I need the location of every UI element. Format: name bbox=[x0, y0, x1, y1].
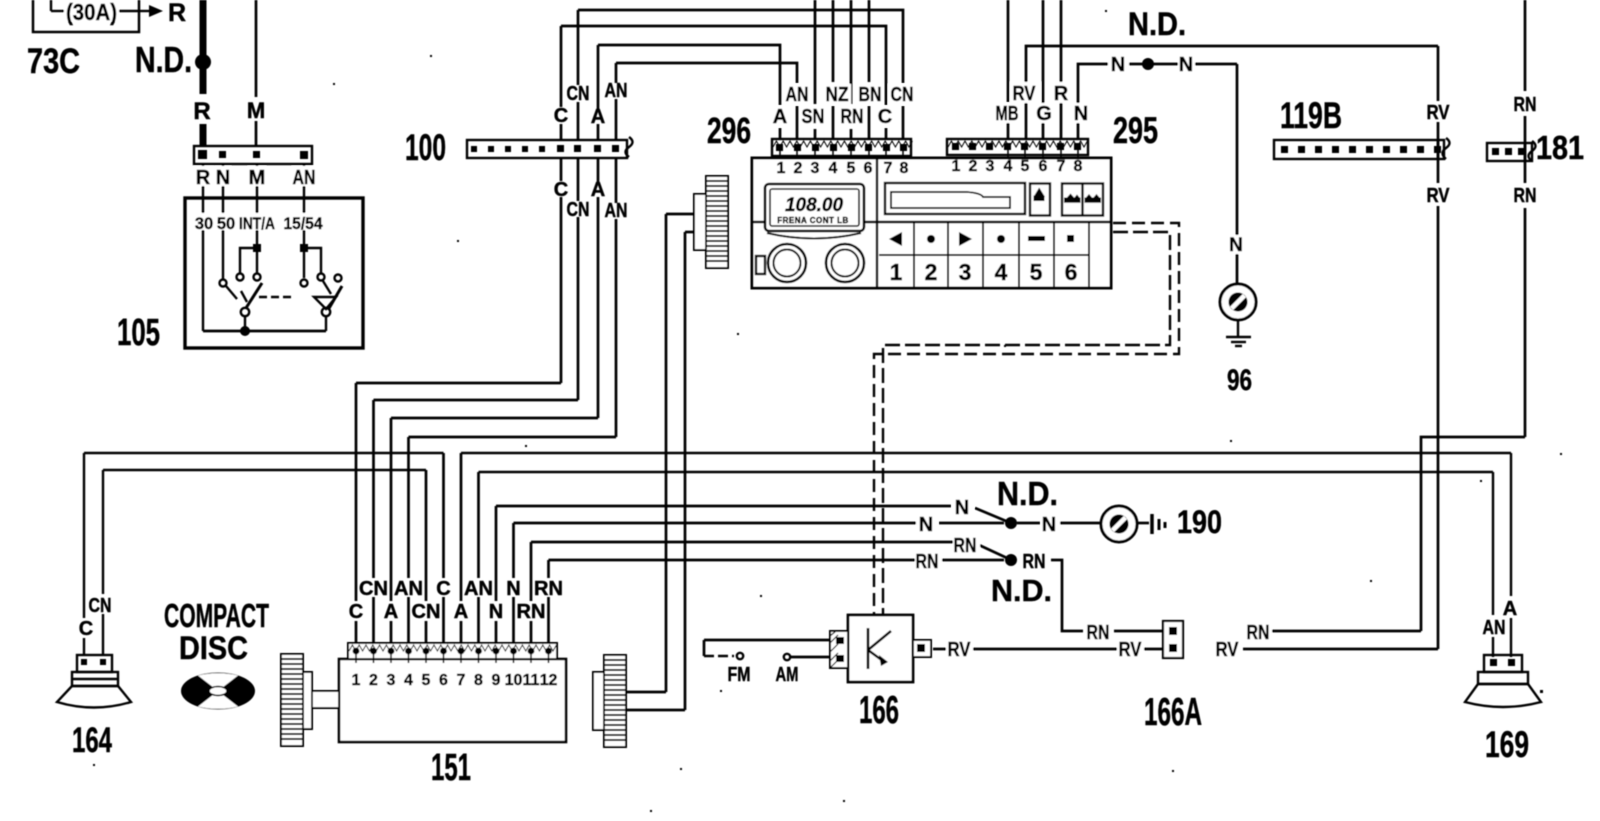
svg-text:A: A bbox=[591, 106, 605, 128]
svg-text:166: 166 bbox=[859, 689, 899, 732]
svg-text:3: 3 bbox=[986, 158, 995, 175]
svg-text:RN: RN bbox=[1087, 622, 1110, 644]
svg-text:5: 5 bbox=[847, 160, 856, 177]
svg-text:AN: AN bbox=[1483, 617, 1506, 639]
svg-text:AN: AN bbox=[605, 200, 628, 222]
svg-text:RV: RV bbox=[1216, 639, 1240, 661]
svg-text:C: C bbox=[79, 618, 93, 640]
svg-text:CN: CN bbox=[567, 199, 590, 221]
svg-text:RV: RV bbox=[1119, 639, 1143, 661]
svg-text:108.00: 108.00 bbox=[785, 195, 844, 216]
svg-text:164: 164 bbox=[72, 721, 112, 760]
svg-text:6: 6 bbox=[439, 672, 448, 689]
svg-text:RN: RN bbox=[1514, 185, 1537, 207]
svg-text:7: 7 bbox=[457, 672, 466, 689]
svg-text:RV: RV bbox=[1427, 102, 1451, 124]
svg-text:3: 3 bbox=[811, 160, 820, 177]
svg-text:AN: AN bbox=[464, 578, 493, 600]
svg-text:15/54: 15/54 bbox=[284, 215, 324, 233]
svg-text:C: C bbox=[554, 105, 568, 127]
svg-text:N.D.: N.D. bbox=[1128, 6, 1186, 42]
svg-text:M: M bbox=[247, 98, 265, 123]
svg-text:C: C bbox=[349, 601, 363, 623]
svg-text:RN: RN bbox=[1023, 551, 1046, 573]
svg-text:RN: RN bbox=[954, 535, 977, 557]
svg-text:119B: 119B bbox=[1280, 95, 1342, 136]
svg-text:5: 5 bbox=[422, 672, 431, 689]
svg-text:RV: RV bbox=[1013, 83, 1037, 105]
svg-text:1: 1 bbox=[952, 158, 961, 175]
svg-text:8: 8 bbox=[1074, 158, 1083, 175]
svg-text:RN: RN bbox=[916, 551, 939, 573]
svg-text:R: R bbox=[196, 167, 211, 189]
svg-text:166A: 166A bbox=[1144, 691, 1202, 734]
svg-text:N: N bbox=[1042, 514, 1056, 536]
svg-text:1: 1 bbox=[890, 259, 903, 285]
svg-text:N.D.: N.D. bbox=[991, 573, 1052, 608]
svg-text:6: 6 bbox=[1065, 259, 1078, 285]
svg-text:181: 181 bbox=[1536, 129, 1584, 166]
svg-text:RN: RN bbox=[1247, 622, 1270, 644]
svg-text:R: R bbox=[1054, 83, 1069, 105]
svg-text:8: 8 bbox=[474, 672, 483, 689]
svg-text:N: N bbox=[955, 497, 969, 519]
svg-text:2: 2 bbox=[969, 158, 978, 175]
svg-text:CN: CN bbox=[359, 578, 388, 600]
svg-text:30: 30 bbox=[195, 215, 213, 233]
svg-text:N: N bbox=[1179, 54, 1193, 76]
svg-text:N: N bbox=[216, 167, 230, 189]
svg-text:CN: CN bbox=[567, 83, 590, 105]
svg-text:AN: AN bbox=[394, 578, 423, 600]
svg-text:INT/A: INT/A bbox=[239, 215, 275, 233]
svg-text:6: 6 bbox=[1039, 158, 1048, 175]
svg-text:A: A bbox=[384, 601, 398, 623]
svg-text:N.D.: N.D. bbox=[997, 475, 1058, 512]
svg-text:FRENA CONT LB: FRENA CONT LB bbox=[777, 216, 849, 225]
svg-text:2: 2 bbox=[794, 160, 803, 177]
svg-text:C: C bbox=[878, 106, 892, 128]
svg-text:CN: CN bbox=[412, 601, 441, 623]
svg-text:3: 3 bbox=[387, 672, 396, 689]
svg-text:SN: SN bbox=[802, 106, 825, 128]
svg-text:NZ: NZ bbox=[826, 84, 849, 106]
svg-text:11: 11 bbox=[523, 672, 540, 689]
svg-text:10: 10 bbox=[505, 672, 523, 689]
svg-text:7: 7 bbox=[1057, 158, 1066, 175]
svg-text:MB: MB bbox=[996, 103, 1019, 125]
svg-text:N.D.: N.D. bbox=[135, 39, 192, 80]
svg-text:FM: FM bbox=[728, 664, 751, 686]
svg-text:50: 50 bbox=[217, 215, 235, 233]
svg-text:N: N bbox=[1111, 54, 1125, 76]
svg-text:N: N bbox=[1229, 235, 1243, 256]
svg-text:4: 4 bbox=[1004, 158, 1013, 175]
svg-text:C: C bbox=[436, 578, 450, 600]
svg-text:6: 6 bbox=[864, 160, 873, 177]
svg-text:RN: RN bbox=[517, 601, 546, 623]
svg-text:296: 296 bbox=[707, 110, 751, 151]
svg-text:A: A bbox=[591, 179, 605, 201]
svg-text:3: 3 bbox=[959, 259, 972, 285]
svg-text:8: 8 bbox=[900, 160, 909, 177]
svg-text:169: 169 bbox=[1485, 724, 1529, 765]
svg-text:RV: RV bbox=[1427, 185, 1451, 207]
svg-text:R: R bbox=[168, 0, 186, 27]
svg-text:RN: RN bbox=[841, 106, 864, 128]
svg-text:(30A): (30A) bbox=[66, 0, 117, 25]
svg-text:A: A bbox=[773, 106, 787, 128]
svg-text:4: 4 bbox=[995, 259, 1008, 285]
svg-text:A: A bbox=[454, 601, 468, 623]
svg-text:96: 96 bbox=[1227, 364, 1252, 397]
svg-text:4: 4 bbox=[829, 160, 838, 177]
svg-text:2: 2 bbox=[369, 672, 378, 689]
svg-text:7: 7 bbox=[884, 160, 893, 177]
svg-text:N: N bbox=[489, 601, 503, 623]
svg-text:1: 1 bbox=[352, 672, 361, 689]
svg-text:N: N bbox=[919, 514, 933, 536]
svg-text:G: G bbox=[1036, 103, 1052, 125]
svg-text:CN: CN bbox=[891, 84, 914, 106]
svg-text:CN: CN bbox=[89, 595, 112, 617]
svg-text:DISC: DISC bbox=[179, 630, 248, 666]
svg-text:100: 100 bbox=[405, 127, 446, 168]
svg-text:R: R bbox=[193, 98, 210, 125]
svg-text:AN: AN bbox=[293, 167, 316, 189]
svg-text:73C: 73C bbox=[27, 42, 80, 81]
svg-text:AN: AN bbox=[605, 80, 628, 102]
svg-text:5: 5 bbox=[1021, 158, 1030, 175]
svg-text:190: 190 bbox=[1177, 504, 1222, 540]
svg-text:RN: RN bbox=[1514, 94, 1537, 116]
svg-text:151: 151 bbox=[431, 747, 471, 789]
svg-text:12: 12 bbox=[540, 672, 558, 689]
svg-text:4: 4 bbox=[404, 672, 413, 689]
svg-text:2: 2 bbox=[925, 259, 938, 285]
svg-text:BN: BN bbox=[859, 84, 882, 106]
svg-text:105: 105 bbox=[117, 312, 160, 354]
svg-text:AM: AM bbox=[776, 664, 799, 686]
svg-text:9: 9 bbox=[492, 672, 501, 689]
svg-text:1: 1 bbox=[777, 160, 786, 177]
svg-text:5: 5 bbox=[1030, 259, 1043, 285]
svg-text:RN: RN bbox=[534, 578, 563, 600]
svg-text:AN: AN bbox=[786, 84, 809, 106]
svg-text:295: 295 bbox=[1113, 110, 1158, 151]
svg-text:C: C bbox=[554, 179, 568, 201]
svg-text:COMPACT: COMPACT bbox=[164, 597, 269, 634]
svg-text:M: M bbox=[249, 167, 266, 189]
svg-text:RV: RV bbox=[948, 639, 972, 661]
svg-text:N: N bbox=[506, 578, 520, 600]
svg-text:N: N bbox=[1074, 103, 1088, 125]
